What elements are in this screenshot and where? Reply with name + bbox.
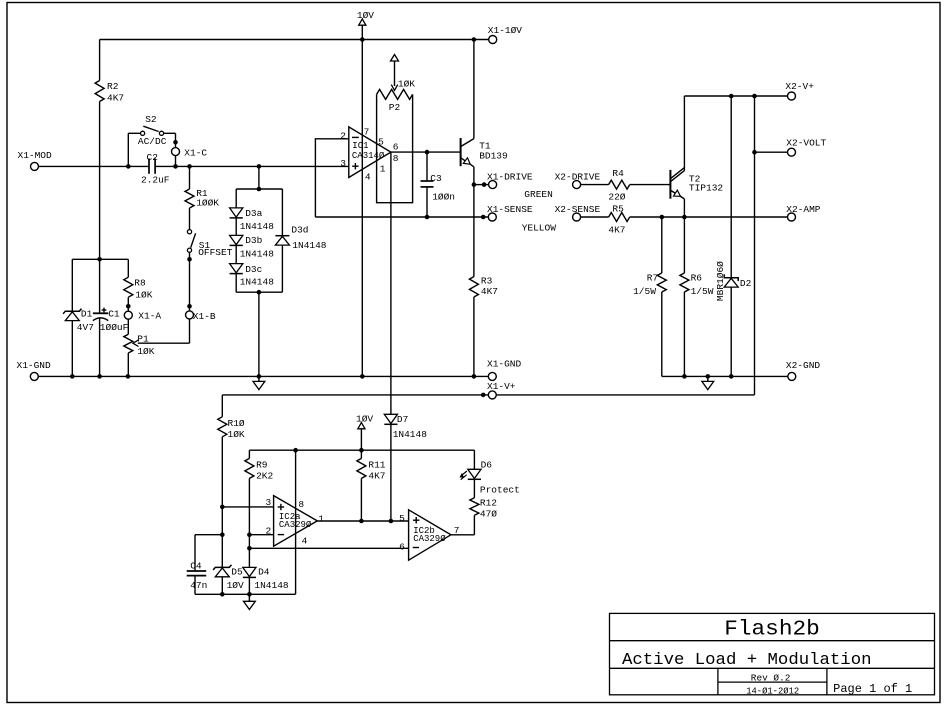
- connector X2-GND: [788, 372, 796, 380]
- value IC2b CA3290: [413, 534, 446, 544]
- label 10V top flag: [357, 10, 374, 21]
- junction D3 top: [257, 187, 262, 192]
- svg-text:X1-GND: X1-GND: [17, 360, 52, 371]
- wire IC2a pin2 row right: [249, 534, 273, 536]
- value R1 100K: [196, 197, 219, 208]
- connector X1-A: [124, 311, 132, 319]
- value R7 1/5W: [633, 286, 656, 297]
- label X1-V+: [487, 381, 516, 392]
- svg-text:1: 1: [318, 513, 324, 524]
- value R5 4K7: [608, 224, 625, 235]
- junction bottom rail / D5: [220, 592, 225, 597]
- svg-text:R3: R3: [481, 275, 493, 286]
- svg-text:X1-B: X1-B: [193, 311, 216, 322]
- value R6 1/5W: [691, 286, 714, 297]
- svg-text:S2: S2: [145, 114, 157, 125]
- polarity plus C1: [102, 308, 107, 313]
- zener D1: [63, 259, 81, 376]
- wire X1 ground row: [38, 375, 488, 377]
- junction T1 emitter / drive: [472, 182, 477, 187]
- wire IC1 pin5 pin1 to P2: [377, 94, 413, 202]
- wire R7 top: [661, 217, 663, 273]
- wire X2 ground bus: [662, 375, 788, 377]
- pin 7 IC2b: [454, 525, 460, 536]
- connector X1-SENSE: [488, 213, 496, 221]
- label D1: [81, 308, 93, 319]
- capacitor C4: [187, 535, 207, 595]
- ground symbol left: [253, 376, 265, 389]
- junction X1-B stub: [187, 304, 192, 309]
- label T2: [689, 174, 701, 185]
- power flag 10V top: [359, 19, 366, 40]
- capacitor C2: [149, 159, 155, 174]
- svg-text:2: 2: [340, 131, 346, 142]
- value D3d 1N4148: [292, 240, 327, 251]
- svg-text:CA329Ø: CA329Ø: [413, 534, 446, 544]
- ground symbol right: [702, 376, 714, 389]
- label X2-GND: [786, 360, 821, 371]
- op-amp IC2a body: [274, 496, 318, 547]
- svg-text:6: 6: [393, 142, 399, 153]
- junction X1-SENSE stub: [481, 215, 486, 220]
- svg-text:Protect: Protect: [480, 484, 520, 495]
- value T1 BD139: [479, 151, 508, 162]
- wire IC1 pin7 pin4 supply line: [361, 40, 363, 377]
- label X1-C: [184, 148, 207, 159]
- junction output / R11: [359, 519, 364, 524]
- diode D3b: [230, 218, 243, 246]
- connector X2-SENSE: [573, 213, 581, 221]
- label R10: [228, 418, 245, 429]
- label C3: [430, 173, 442, 184]
- value R10 10K: [228, 429, 245, 440]
- label X1-MOD: [18, 150, 53, 161]
- svg-text:OFFSET: OFFSET: [198, 247, 233, 258]
- transistor T1: [461, 138, 474, 167]
- svg-text:4K7: 4K7: [107, 93, 124, 104]
- label IC2b: [413, 526, 435, 536]
- junction sense / R7: [660, 215, 665, 220]
- wiper P2: [391, 61, 397, 90]
- label R7: [647, 272, 658, 283]
- label S2: [145, 114, 157, 125]
- svg-text:X2-GND: X2-GND: [786, 360, 821, 371]
- svg-text:R8: R8: [134, 277, 146, 288]
- svg-text:X1-GND: X1-GND: [487, 359, 522, 370]
- resistor R7: [657, 273, 666, 376]
- svg-text:GREEN: GREEN: [524, 189, 553, 200]
- pin 2 IC1: [340, 131, 346, 142]
- label X2-DRIVE: [555, 172, 601, 183]
- wire R6 top: [683, 217, 685, 273]
- value D4 1N4148: [254, 580, 289, 591]
- label YELLOW wire: [522, 222, 557, 233]
- label X1-B: [193, 311, 216, 322]
- connector X1-B: [186, 311, 194, 319]
- svg-text:C2: C2: [147, 152, 159, 163]
- label R2: [107, 81, 119, 92]
- svg-text:R7: R7: [647, 272, 658, 283]
- svg-text:22Ø: 22Ø: [608, 191, 625, 202]
- svg-text:2K2: 2K2: [256, 471, 273, 482]
- value IC2a CA3290: [279, 520, 312, 530]
- svg-text:47Ø: 47Ø: [480, 509, 497, 520]
- label C4: [190, 560, 202, 571]
- value R9 2K2: [256, 471, 273, 482]
- label X1-10V: [488, 25, 523, 36]
- label D3a: [245, 208, 262, 219]
- value C3 100n: [432, 192, 455, 203]
- value D3c 1N4148: [240, 276, 275, 287]
- led D6: [460, 469, 481, 498]
- connector X2-V+: [788, 92, 796, 100]
- svg-text:X2-AMP: X2-AMP: [786, 204, 821, 215]
- wire S2 left leg: [128, 133, 140, 166]
- junction gnd / D1: [70, 374, 75, 379]
- connector X1-MOD: [31, 162, 39, 170]
- junction X1-MOD row / X1-C leg: [173, 164, 178, 169]
- value D3a 1N4148: [240, 221, 275, 232]
- pin 6 IC1: [393, 142, 399, 153]
- junction gnd bus / R6: [682, 374, 687, 379]
- label D2: [740, 278, 752, 289]
- potentiometer P1: [124, 319, 133, 376]
- value R8 10K: [135, 289, 152, 300]
- svg-text:R1Ø: R1Ø: [228, 418, 245, 429]
- diode D3c: [230, 245, 243, 292]
- diode D4: [243, 567, 256, 594]
- label R4: [612, 168, 624, 179]
- label D6: [481, 459, 493, 470]
- wire IC1 output to T1 base: [391, 151, 461, 153]
- resistor R3: [469, 277, 478, 377]
- wire R5 to X2-AMP: [630, 216, 788, 218]
- label GREEN wire: [524, 189, 553, 200]
- wire X2-V+ rail: [684, 95, 787, 97]
- svg-text:1: 1: [380, 163, 386, 174]
- junction pin2 / R9 D4: [247, 532, 252, 537]
- pin 2 IC2a: [266, 525, 272, 536]
- label R9: [256, 460, 268, 471]
- connector X1-V+: [488, 391, 496, 399]
- svg-text:C4: C4: [190, 560, 202, 571]
- label C1: [108, 309, 120, 320]
- label R1: [196, 188, 208, 199]
- svg-text:X1-DRIVE: X1-DRIVE: [487, 172, 533, 183]
- connector X1-GND right: [488, 372, 496, 380]
- junction S1 bottom: [187, 257, 192, 262]
- value R4 220: [608, 191, 625, 202]
- label X1-A: [138, 310, 161, 321]
- pin 8 IC2a: [298, 499, 304, 510]
- wire IC1 pin8 strobe line: [390, 152, 392, 414]
- wire 10V top rail: [100, 39, 489, 41]
- value D7 1N4148: [393, 429, 428, 440]
- wire X1-MOD row: [39, 165, 349, 167]
- label IC1 plus: [352, 163, 358, 169]
- revision Rev 0.2: [751, 672, 791, 683]
- wire X1-C to row: [175, 156, 177, 167]
- value R12 470: [480, 509, 497, 520]
- wire bias rail: [72, 258, 128, 260]
- svg-text:C3: C3: [430, 173, 442, 184]
- label C2: [147, 152, 159, 163]
- junction X1-MOD row / R1: [187, 164, 192, 169]
- label X1-GND right: [487, 359, 522, 370]
- pin 4 IC2a: [302, 535, 308, 546]
- value D2 MBR1060 rotated: [715, 261, 726, 301]
- junction D3 bottom: [257, 290, 262, 295]
- junction 10V rail / pin8 stub: [293, 448, 298, 453]
- svg-text:X2-DRIVE: X2-DRIVE: [555, 172, 601, 183]
- junction sense / T2 emitter R6: [682, 215, 687, 220]
- svg-text:1ØØK: 1ØØK: [196, 197, 219, 208]
- wire D3 network bottom rail: [236, 291, 282, 293]
- label D4: [258, 567, 270, 578]
- svg-text:5: 5: [378, 137, 384, 148]
- value R2 4K7: [107, 93, 124, 104]
- wiper arrow P1: [133, 340, 139, 347]
- value P2 10K: [398, 78, 415, 89]
- value C4 47n: [190, 580, 207, 591]
- svg-text:1ØØuF: 1ØØuF: [100, 322, 129, 333]
- label IC1 minus: [352, 136, 359, 138]
- zener D5: [213, 565, 231, 595]
- svg-text:8: 8: [298, 499, 304, 510]
- resistor R12: [470, 498, 479, 535]
- value C1 100uF: [100, 322, 129, 333]
- value P1 10K: [137, 346, 154, 357]
- wire R4 to T2 base: [630, 184, 671, 186]
- junction X1-A stub: [126, 304, 131, 309]
- junction gnd / D3 stub: [257, 374, 262, 379]
- svg-text:D5: D5: [231, 567, 243, 578]
- svg-text:1ØØn: 1ØØn: [432, 192, 455, 203]
- svg-text:1N4148: 1N4148: [292, 240, 327, 251]
- value D1 4V7: [77, 322, 94, 333]
- svg-text:Rev Ø.2: Rev Ø.2: [751, 672, 791, 683]
- svg-text:X1-1ØV: X1-1ØV: [488, 25, 523, 36]
- resistor R5: [609, 213, 630, 222]
- connector X1-GND left: [30, 372, 38, 380]
- label D5: [231, 567, 243, 578]
- svg-text:X1-SENSE: X1-SENSE: [487, 204, 533, 215]
- diode D2 MBR1060: [724, 96, 738, 376]
- svg-text:3: 3: [266, 497, 272, 508]
- pin 5 IC2b: [399, 513, 405, 524]
- svg-text:1ØV: 1ØV: [227, 580, 244, 591]
- svg-text:Flash2b: Flash2b: [724, 618, 820, 642]
- svg-text:4K7: 4K7: [608, 224, 625, 235]
- wire T1 emitter to R3: [473, 185, 475, 277]
- resistor R10: [218, 395, 227, 507]
- pin 8 IC1: [393, 153, 399, 164]
- svg-text:R11: R11: [368, 460, 385, 471]
- label S2 AC/DC: [138, 136, 167, 147]
- label X1-SENSE: [487, 204, 533, 215]
- label R5: [612, 203, 624, 214]
- svg-text:TIP132: TIP132: [689, 182, 724, 193]
- capacitor C3: [421, 152, 434, 217]
- label X1-GND left: [17, 360, 52, 371]
- power flag P2 10V: [391, 55, 399, 62]
- resistor R9: [245, 450, 254, 535]
- power flag 10V lower: [358, 423, 365, 451]
- resistor R1: [185, 166, 194, 229]
- wire S2 right leg: [164, 133, 176, 147]
- svg-text:AC/DC: AC/DC: [138, 136, 167, 147]
- switch S1: [187, 230, 195, 253]
- resistor R11: [357, 450, 366, 521]
- value C2 2.2uF: [141, 175, 170, 186]
- wire D3 network stub to ground: [258, 292, 260, 376]
- wire D5 branch: [221, 507, 223, 568]
- label S1: [199, 240, 211, 251]
- label Protect: [480, 484, 520, 495]
- label R11: [368, 460, 385, 471]
- junction gnd / IC1 pin4: [360, 374, 365, 379]
- page number Page 1 of 1: [833, 682, 912, 696]
- value T2 TIP132: [689, 182, 724, 193]
- wire IC1 pin2 loop: [315, 139, 348, 217]
- junction X1-DRIVE stub: [482, 182, 487, 187]
- wire T1 emitter: [473, 167, 475, 185]
- subtitle Active Load + Modulation: [622, 650, 872, 669]
- label IC2a plus: [278, 504, 284, 510]
- junction output / C3: [425, 150, 430, 155]
- wire IC2b output: [451, 534, 475, 536]
- wire X2-DRIVE to R4: [581, 184, 609, 186]
- junction pin3 / R10 D5: [220, 505, 225, 510]
- svg-text:D7: D7: [397, 414, 408, 425]
- wire X2-VOLT stub: [755, 151, 788, 153]
- svg-text:4V7: 4V7: [77, 322, 94, 333]
- svg-text:P2: P2: [389, 102, 401, 113]
- label X2-VOLT: [786, 137, 826, 148]
- svg-text:MBR1Ø6Ø: MBR1Ø6Ø: [715, 261, 726, 301]
- resistor R8: [124, 259, 133, 311]
- wire X1-B to P1 wiper: [138, 319, 190, 343]
- junction pin2 row / D5 branch: [220, 532, 225, 537]
- label D3b: [245, 235, 262, 246]
- connector X1-10V: [489, 36, 497, 44]
- connector X2-AMP: [788, 213, 796, 221]
- value D3b 1N4148: [240, 249, 275, 260]
- svg-text:7: 7: [364, 127, 370, 138]
- label 10V lower flag: [356, 413, 373, 424]
- svg-text:R2: R2: [107, 81, 119, 92]
- label T1: [479, 140, 491, 151]
- wire X1-SENSE row: [315, 216, 488, 218]
- svg-text:CA314Ø: CA314Ø: [352, 151, 385, 161]
- svg-text:4: 4: [302, 535, 308, 546]
- date 14-01-2012: [746, 685, 799, 696]
- transistor T2: [670, 168, 684, 199]
- value R11 4K7: [368, 471, 385, 482]
- svg-text:1ØK: 1ØK: [137, 346, 154, 357]
- svg-text:Page 1 of 1: Page 1 of 1: [833, 682, 912, 696]
- pin 1 IC2a: [318, 513, 324, 524]
- svg-text:4K7: 4K7: [368, 471, 385, 482]
- svg-text:YELLOW: YELLOW: [522, 222, 557, 233]
- resistor R4: [609, 180, 630, 189]
- svg-text:5: 5: [399, 513, 405, 524]
- junction pin6 / D4 branch: [247, 546, 252, 551]
- svg-text:3: 3: [340, 158, 346, 169]
- junction gnd / C1: [97, 374, 102, 379]
- svg-text:1N4148: 1N4148: [240, 249, 275, 260]
- connector X2-DRIVE: [573, 181, 581, 189]
- junction V+ rail / D2: [729, 94, 734, 99]
- svg-text:D2: D2: [740, 278, 752, 289]
- pin 6 IC2b: [399, 541, 405, 552]
- svg-text:X2-SENSE: X2-SENSE: [555, 204, 601, 215]
- op-amp IC1 body: [349, 127, 391, 178]
- label X2-V+: [785, 81, 814, 92]
- junction 10V rail / R11: [359, 448, 364, 453]
- label R8: [134, 277, 146, 288]
- diode D3a: [230, 189, 243, 218]
- label IC2b minus: [413, 547, 419, 549]
- junction sense / C3: [425, 215, 430, 220]
- svg-text:R4: R4: [612, 168, 624, 179]
- svg-text:1/5W: 1/5W: [633, 286, 656, 297]
- capacitor C1: [93, 259, 108, 376]
- svg-text:X1-V+: X1-V+: [487, 381, 516, 392]
- wire bottom rail: [195, 593, 296, 595]
- junction X1-C stub: [173, 140, 178, 145]
- connector X1-C: [172, 148, 180, 156]
- svg-text:C1: C1: [108, 309, 120, 320]
- svg-text:IC1: IC1: [352, 141, 368, 151]
- junction top rail / T1 collector: [472, 37, 477, 42]
- value IC1 CA3140: [352, 151, 385, 161]
- svg-text:1N4148: 1N4148: [393, 429, 428, 440]
- svg-text:1N4148: 1N4148: [254, 580, 289, 591]
- junction top rail / 10V flag: [360, 37, 365, 42]
- wire IC2a pin2 row left: [195, 534, 222, 536]
- svg-text:1ØV: 1ØV: [356, 413, 373, 424]
- resistor R2: [95, 40, 104, 167]
- label D7: [397, 414, 408, 425]
- label P1: [137, 334, 149, 345]
- svg-text:4: 4: [365, 171, 371, 182]
- label IC1: [352, 141, 368, 151]
- junction X1-MOD row / D3 network: [257, 164, 262, 169]
- label IC2b plus: [413, 517, 419, 523]
- wire 10V rail to D6: [473, 450, 475, 469]
- svg-text:4K7: 4K7: [481, 286, 498, 297]
- svg-text:R5: R5: [612, 203, 624, 214]
- pin 5 IC1: [378, 137, 384, 148]
- label D3c: [245, 264, 262, 275]
- svg-text:BD139: BD139: [479, 151, 508, 162]
- value D5 10V: [227, 580, 244, 591]
- wire T2 collector riser: [683, 96, 685, 171]
- connector X1-DRIVE: [489, 181, 497, 189]
- svg-text:D3b: D3b: [245, 235, 262, 246]
- label X2-SENSE: [555, 204, 601, 215]
- junction gnd bus / ground symbol: [706, 374, 711, 379]
- svg-text:1ØK: 1ØK: [398, 78, 415, 89]
- pin 1 IC1: [380, 163, 386, 174]
- svg-text:1N4148: 1N4148: [240, 221, 275, 232]
- wire IC2a pin8 pin4 line: [295, 450, 297, 594]
- wire 10V rail lower: [249, 449, 474, 451]
- label R6: [691, 272, 703, 283]
- svg-text:1ØK: 1ØK: [228, 429, 245, 440]
- junction gnd bus / D2: [729, 374, 734, 379]
